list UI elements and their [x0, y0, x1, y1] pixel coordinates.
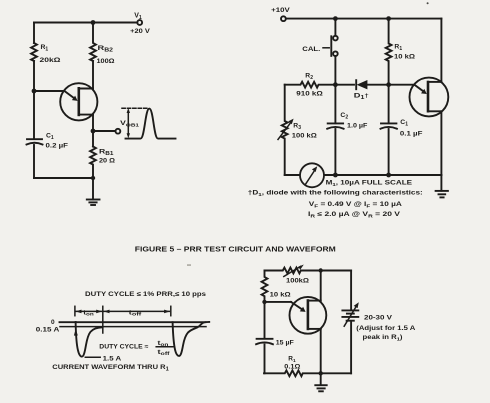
switch CAL [323, 36, 338, 56]
ground TL [87, 178, 100, 205]
svg-text:910 kΩ: 910 kΩ [296, 90, 323, 97]
label 1.0 µF [347, 122, 367, 129]
label duty cycle spec [85, 291, 206, 298]
wire diode left [335, 84, 354, 86]
node base junction TL [32, 89, 37, 94]
label +20 V [130, 28, 150, 35]
svg-text:V1: V1 [134, 12, 142, 21]
wire C1 branch lower [388, 129, 390, 175]
label 100 kΩ [292, 132, 318, 139]
node diode junction left [333, 82, 338, 87]
label 20 Ω [99, 158, 116, 165]
waveform pulse VOB1 [122, 108, 176, 139]
label figure caption [135, 246, 336, 253]
arrow toff span [104, 310, 171, 314]
svg-text:C2: C2 [340, 112, 348, 121]
label 20kΩ [40, 57, 62, 64]
label R1 (BR) [288, 355, 296, 364]
resistor R1 (BR) [264, 370, 351, 376]
label 20-30 V [364, 314, 393, 321]
zero level line [60, 321, 206, 323]
label RB1 [99, 149, 114, 158]
pointer line 1.5 A [85, 356, 100, 358]
resistor 100k pot [265, 265, 352, 277]
arrow ton span [76, 310, 103, 314]
tick right [170, 306, 172, 315]
wire RB2 to transistor [92, 61, 94, 89]
svg-text:0.1 µF: 0.1 µF [400, 130, 423, 137]
svg-text:100kΩ: 100kΩ [286, 278, 309, 285]
wire cap to bottom BR [264, 345, 266, 374]
svg-text:CURRENT WAVEFORM THRU R1: CURRENT WAVEFORM THRU R1 [52, 364, 169, 373]
tick mid [102, 306, 104, 333]
label 10 kΩ (TR) [394, 54, 416, 61]
wire B2 up [440, 19, 442, 82]
svg-text:DUTY CYCLE ≤ 1% PRR,≤ 10 pps: DUTY CYCLE ≤ 1% PRR,≤ 10 pps [85, 291, 206, 298]
svg-text:R1: R1 [288, 355, 296, 364]
svg-text:†D1, diode with the following: †D1, diode with the following characteri… [248, 190, 423, 199]
label V1 [134, 12, 142, 21]
wire left branch mid [33, 61, 35, 139]
svg-text:DUTY CYCLE ≈: DUTY CYCLE ≈ [99, 344, 148, 351]
label 0 [51, 319, 55, 326]
label 0.2 µF [46, 143, 69, 150]
label VOB1 [120, 120, 139, 129]
wire switch to R2 node [334, 56, 336, 85]
resistor 10k [262, 271, 268, 339]
label 15 µF [276, 340, 294, 347]
svg-text:R3: R3 [293, 123, 301, 132]
waveform pulse 2 [173, 322, 210, 356]
waveform pulse 1 [74, 322, 103, 357]
node output junction TL [91, 129, 96, 134]
capacitor C2 [327, 123, 343, 128]
0.15 level line [60, 326, 206, 328]
label VF line [309, 201, 403, 210]
label RB2 [98, 45, 114, 54]
svg-text:R1: R1 [41, 44, 49, 53]
resistor RB2 [90, 23, 96, 62]
node B2 top junction BR [319, 268, 323, 272]
label ton [83, 309, 94, 317]
wire C2 branch upper [334, 85, 336, 124]
svg-text:CAL.: CAL. [302, 46, 320, 53]
resistor RB1 [90, 147, 96, 179]
meter M1 [300, 163, 324, 187]
wire B1 down [440, 111, 442, 175]
label IR line [308, 211, 401, 220]
wire diode to emitter [367, 84, 414, 86]
label duty cycle formula [99, 344, 148, 351]
resistor R3 variable [278, 85, 294, 175]
speck artifact mid right [187, 265, 191, 266]
fraction ton/toff [156, 341, 173, 356]
svg-text:1.5 A: 1.5 A [103, 356, 122, 363]
node anode junction [386, 82, 391, 87]
capacitor 15µF [256, 339, 273, 344]
svg-text:10 kΩ: 10 kΩ [270, 291, 291, 298]
svg-text:100 kΩ: 100 kΩ [292, 132, 318, 139]
label toff [129, 309, 142, 317]
svg-text:peak in R1): peak in R1) [363, 334, 403, 343]
label diode footnote [248, 190, 423, 199]
resistor R2 [285, 82, 336, 88]
label D1† [354, 93, 369, 102]
wire C1 branch upper [388, 85, 390, 124]
node top junction TL [91, 20, 96, 25]
wire base BR [265, 301, 292, 303]
svg-text:0: 0 [51, 319, 55, 326]
resistor R1 [31, 43, 37, 61]
svg-text:toff: toff [158, 350, 171, 356]
ground BR [315, 373, 326, 391]
battery 20-30V adjustable [342, 271, 358, 374]
diode D1 [356, 80, 367, 89]
svg-text:20-30 V: 20-30 V [364, 314, 393, 321]
svg-text:0.15 A: 0.15 A [36, 327, 60, 334]
svg-text:RB1: RB1 [99, 149, 114, 158]
svg-text:ton: ton [83, 309, 94, 317]
label 910 kΩ [296, 90, 323, 97]
label adjust note [356, 325, 415, 332]
wire base TL [34, 90, 65, 92]
transistor Q2 UJT [410, 78, 449, 117]
terminal V1 [137, 20, 142, 25]
svg-text:FIGURE 5 – PRR TEST CIRCUIT AN: FIGURE 5 – PRR TEST CIRCUIT AND WAVEFORM [135, 246, 336, 253]
label C1 (TR) [400, 119, 408, 128]
svg-text:15 µF: 15 µF [276, 340, 294, 347]
svg-text:RB2: RB2 [98, 45, 114, 54]
svg-text:R2: R2 [305, 73, 313, 82]
wire top rail TR [286, 18, 442, 20]
svg-text:C1: C1 [46, 133, 54, 142]
label CAL. [302, 46, 320, 53]
capacitor C1 [27, 139, 43, 144]
terminal VOB1 [116, 129, 121, 134]
label current waveform [52, 364, 169, 373]
wire left branch upper [33, 23, 35, 44]
node base junction BR [262, 300, 266, 304]
svg-text:toff: toff [129, 309, 142, 317]
wire to switch [334, 19, 336, 36]
capacitor C1 (TR) [381, 123, 397, 128]
node C2 bottom junction [333, 173, 338, 178]
transistor Q1 UJT [60, 83, 97, 120]
label R2 [305, 73, 313, 82]
label 100Ω [97, 58, 116, 65]
wire to output terminal [93, 130, 116, 132]
label 10 kΩ [270, 291, 291, 298]
svg-text:20kΩ: 20kΩ [40, 57, 62, 64]
node R1 junction top [386, 16, 391, 21]
wire C2 branch lower [334, 129, 336, 175]
wire bottom rail TL [34, 177, 93, 179]
svg-text:C1: C1 [400, 119, 408, 128]
label 100kΩ [286, 278, 309, 285]
node CAL junction [333, 16, 338, 21]
wire top rail TL [34, 22, 137, 24]
label C1 [46, 133, 54, 142]
svg-text:0.1Ω: 0.1Ω [284, 364, 300, 371]
label peak note [363, 334, 403, 343]
transistor Q3 UJT [290, 297, 327, 334]
svg-text:100Ω: 100Ω [97, 58, 116, 65]
label M1 full scale [326, 179, 413, 188]
svg-text:D1†: D1† [354, 93, 369, 102]
speck artifact top right [427, 2, 429, 4]
wire left branch lower [33, 145, 35, 178]
terminal +10V [281, 16, 286, 21]
label 0.1 µF [400, 130, 423, 137]
svg-text:+10V: +10V [271, 7, 290, 14]
label 0.1Ω [284, 364, 300, 371]
svg-text:1.0 µF: 1.0 µF [347, 122, 367, 129]
label R1 (TR) [394, 44, 402, 53]
svg-text:VF = 0.49 V @ IF = 10 µA: VF = 0.49 V @ IF = 10 µA [309, 201, 403, 210]
label R1 [41, 44, 49, 53]
svg-text:+20 V: +20 V [130, 28, 150, 35]
svg-text:IR ≤ 2.0 µA @ VR = 20 V: IR ≤ 2.0 µA @ VR = 20 V [308, 211, 401, 220]
svg-text:VOB1: VOB1 [120, 120, 139, 129]
wire bottom rail TR [285, 174, 442, 176]
wire emitter branch down [92, 115, 94, 147]
svg-text:(Adjust for 1.5 A: (Adjust for 1.5 A [356, 325, 415, 332]
label C2 [340, 112, 348, 121]
node C1 bottom junction [386, 173, 391, 178]
ground TR [436, 175, 448, 197]
svg-text:20 Ω: 20 Ω [99, 158, 116, 165]
wire B2 up BR [320, 271, 322, 301]
resistor R1 (TR) [386, 19, 392, 85]
label 1.5 A [103, 356, 122, 363]
label 0.15 A [36, 327, 60, 334]
wire B1 down BR [320, 329, 322, 373]
svg-text:R1: R1 [394, 44, 402, 53]
svg-text:0.2 µF: 0.2 µF [46, 143, 69, 150]
svg-text:10 kΩ: 10 kΩ [394, 54, 416, 61]
svg-text:M1, 10µA FULL SCALE: M1, 10µA FULL SCALE [326, 179, 413, 188]
label +10V [271, 7, 290, 14]
node ground junction TL [91, 176, 95, 180]
tick left [74, 306, 76, 315]
node ground junction BR [319, 371, 323, 375]
label R3 [293, 123, 301, 132]
